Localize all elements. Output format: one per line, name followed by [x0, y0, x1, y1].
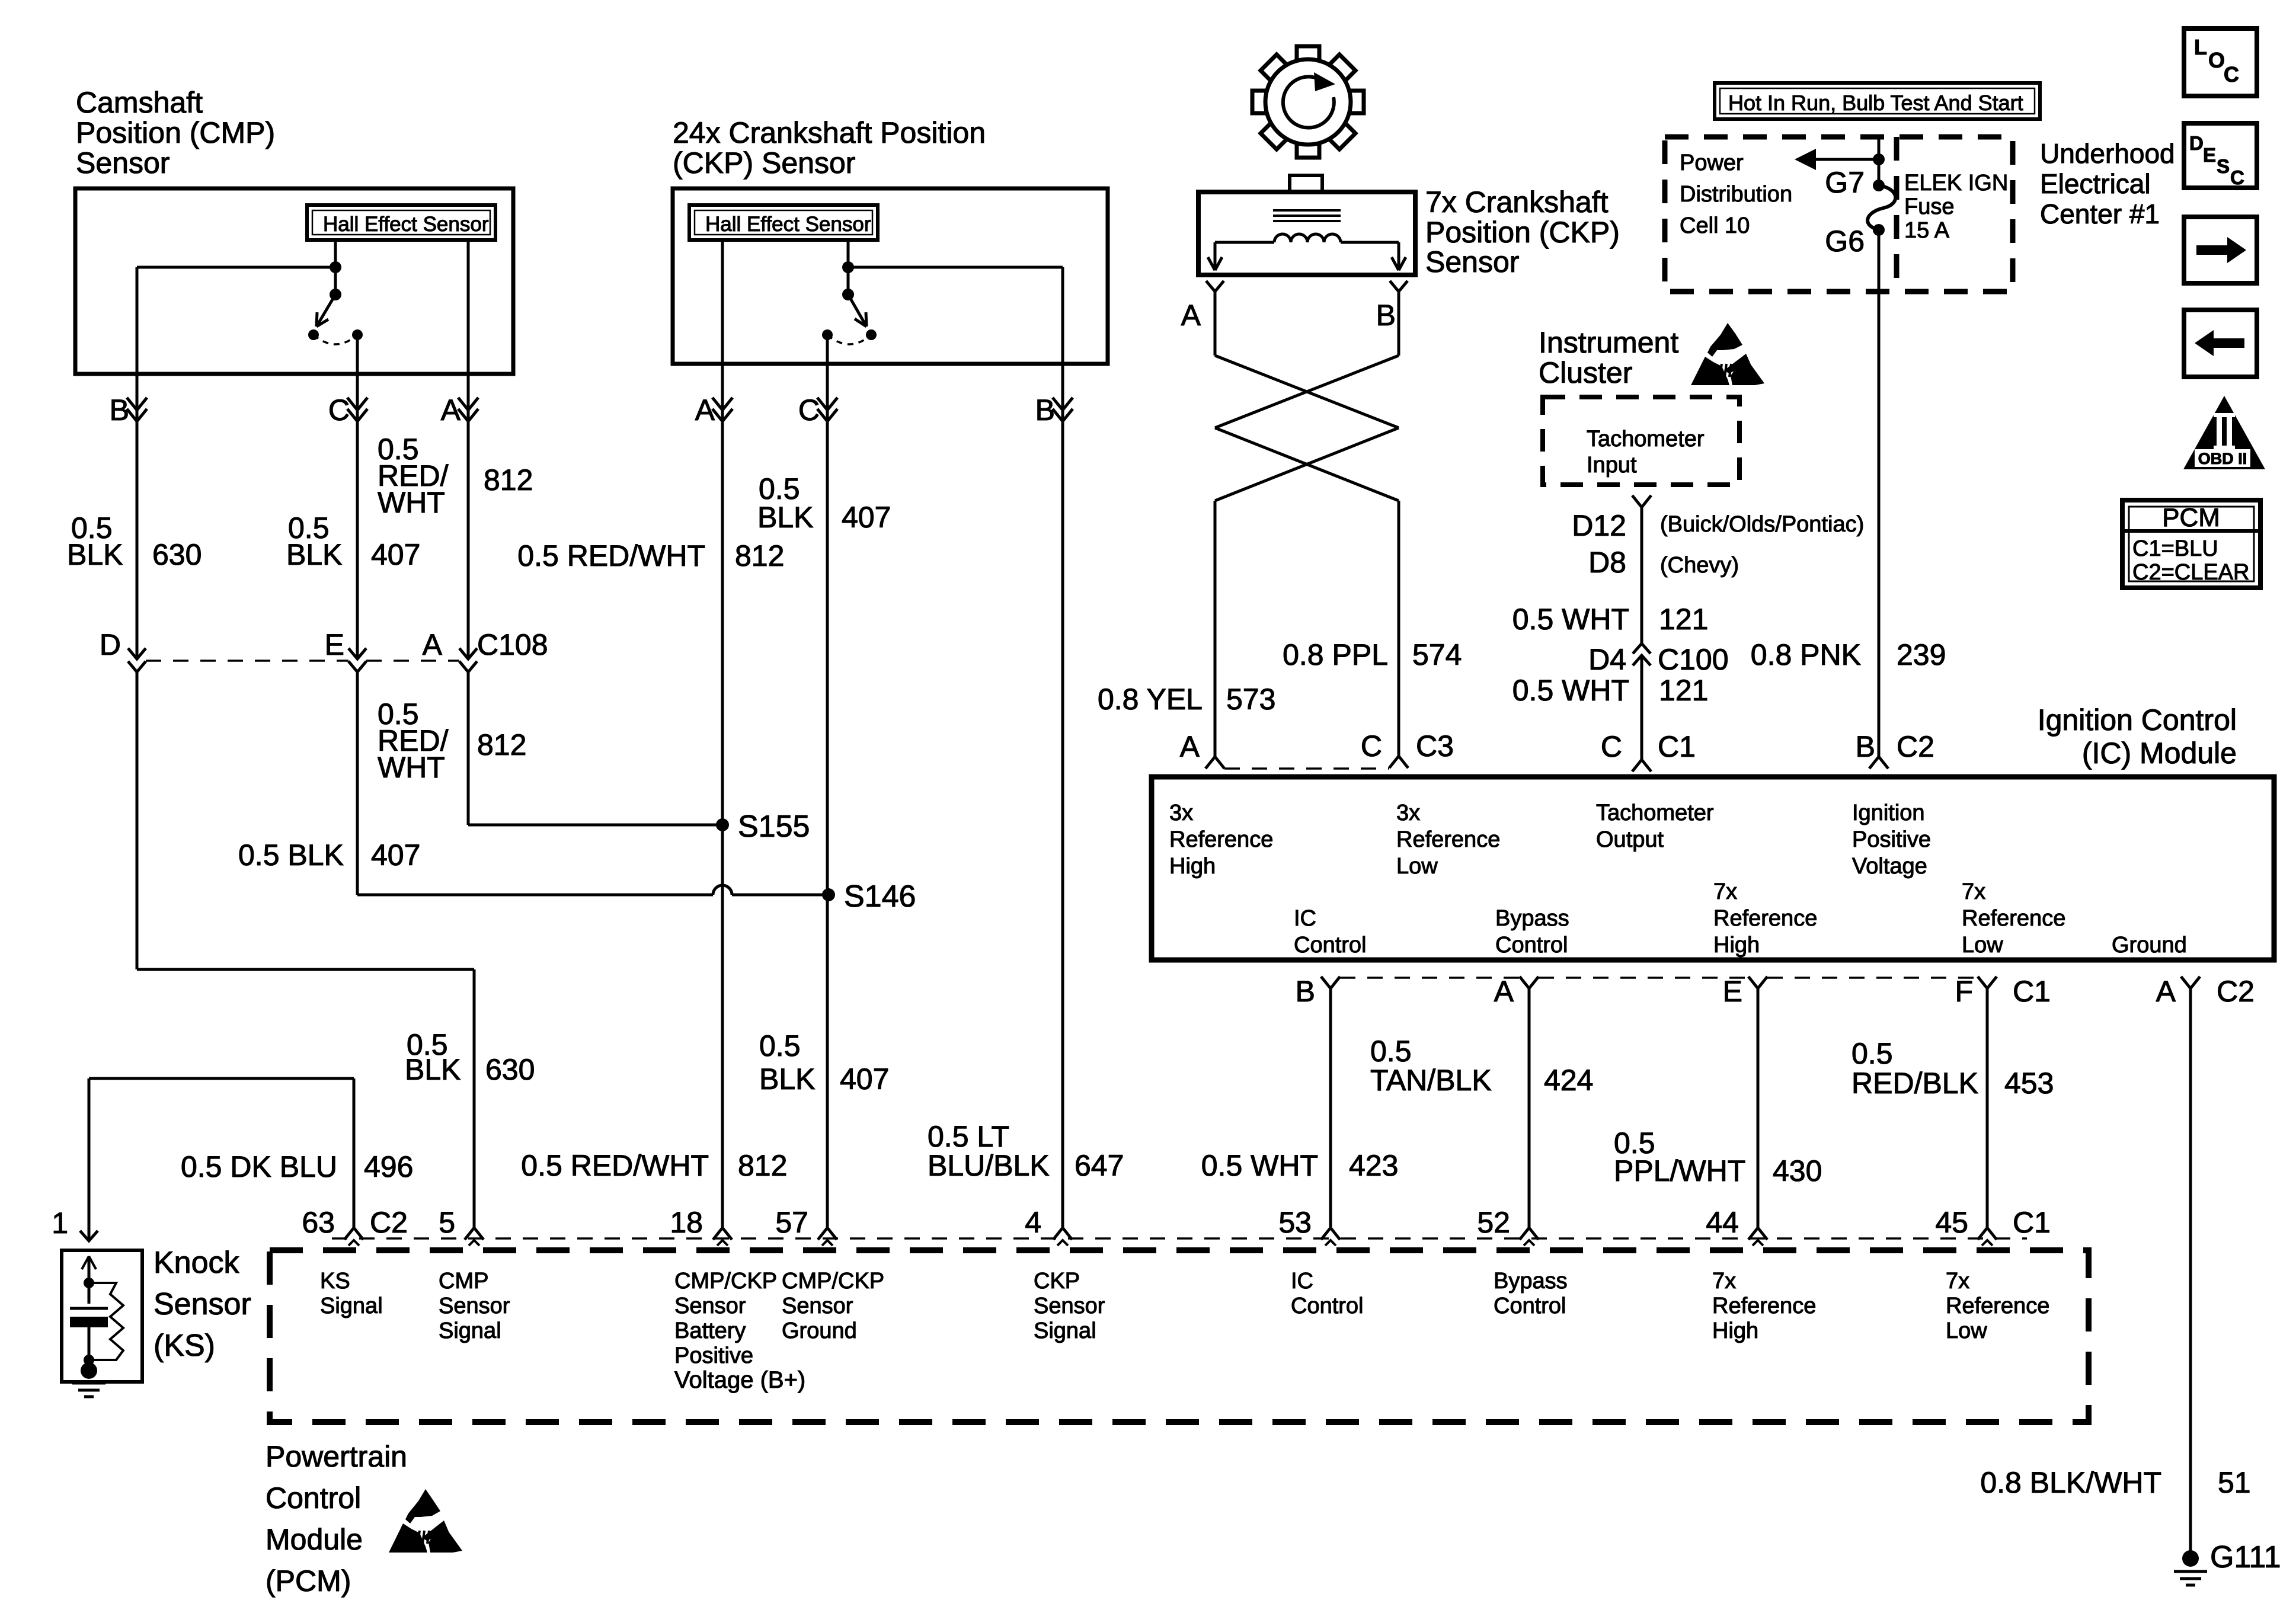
svg-text:BLK: BLK: [405, 1053, 461, 1086]
svg-text:Low: Low: [1962, 933, 2003, 958]
DESC reference box: [2184, 123, 2257, 188]
OBD II triangle symbol: [2183, 396, 2265, 469]
svg-text:0.5 BLK: 0.5 BLK: [238, 838, 344, 872]
svg-text:A: A: [423, 628, 443, 661]
7x sensor magnetic core lines: [1273, 209, 1341, 212]
svg-text:Signal: Signal: [320, 1294, 383, 1318]
CMP sensor box: [75, 188, 513, 374]
7x sensor pickup coil: [1274, 234, 1341, 242]
svg-text:C3: C3: [1416, 729, 1454, 763]
svg-text:C2: C2: [1897, 730, 1934, 763]
svg-text:CMP/CKP: CMP/CKP: [674, 1269, 777, 1294]
svg-text:Low: Low: [1396, 854, 1438, 879]
svg-text:Position (CKP): Position (CKP): [1425, 216, 1620, 249]
svg-text:430: 430: [1773, 1154, 1822, 1188]
svg-text:High: High: [1712, 1318, 1758, 1343]
svg-text:BLK: BLK: [757, 501, 814, 534]
svg-text:Control: Control: [1495, 933, 1568, 958]
svg-text:0.8 BLK/WHT: 0.8 BLK/WHT: [1980, 1466, 2161, 1499]
knock sensor internal wire: [88, 1256, 91, 1304]
wire - knock sensor to PCM pin 63: [88, 1078, 91, 1241]
svg-text:A: A: [1180, 730, 1200, 763]
svg-text:BLK: BLK: [67, 538, 123, 571]
svg-text:Ignition: Ignition: [1852, 801, 1925, 825]
svg-text:WHT: WHT: [378, 751, 445, 784]
Ignition Control Module box: [1152, 777, 2274, 960]
wire - 24x C wire (0.5 BLK 407) to S146 then PCM pin 57: [826, 364, 829, 1228]
svg-text:Powertrain: Powertrain: [266, 1440, 407, 1473]
svg-text:C108: C108: [477, 628, 548, 661]
7x CKP sensor box: [1198, 192, 1415, 275]
svg-text:A: A: [1494, 975, 1514, 1008]
ground at knock sensor: [81, 1362, 97, 1379]
svg-text:TAN/BLK: TAN/BLK: [1370, 1064, 1492, 1097]
svg-text:15 A: 15 A: [1904, 218, 1950, 243]
svg-text:G6: G6: [1825, 225, 1865, 258]
wire - E wire horizontal to S146 with hop over 812 wire: [357, 894, 713, 897]
svg-text:D12: D12: [1572, 509, 1626, 542]
svg-text:Power: Power: [1680, 151, 1744, 175]
svg-text:CMP/CKP: CMP/CKP: [782, 1269, 884, 1294]
svg-text:63: 63: [302, 1206, 335, 1239]
svg-text:Position (CMP): Position (CMP): [76, 116, 275, 149]
wire - CMP pin C wire (0.5 BLK 407) to S146: [356, 374, 359, 659]
svg-text:(Buick/Olds/Pontiac): (Buick/Olds/Pontiac): [1660, 512, 1864, 537]
svg-text:Positive: Positive: [674, 1343, 753, 1368]
svg-text:Tachometer: Tachometer: [1587, 427, 1705, 452]
Powertrain Control Module dashed box: [270, 1250, 2089, 1422]
svg-text:Control: Control: [266, 1481, 361, 1515]
svg-text:424: 424: [1544, 1064, 1593, 1097]
svg-text:0.8 PPL: 0.8 PPL: [1283, 638, 1388, 671]
svg-text:Signal: Signal: [1034, 1318, 1096, 1343]
splice S155: [716, 818, 729, 831]
24x CKP sensor box: [673, 188, 1108, 364]
wire - 24x hall left output to pin A: [721, 240, 724, 364]
svg-text:4: 4: [1025, 1206, 1041, 1239]
wire - 24x hall right output to switch: [847, 240, 850, 267]
svg-text:Distribution: Distribution: [1680, 182, 1792, 207]
svg-text:PCM: PCM: [2162, 503, 2220, 532]
svg-text:Reference: Reference: [1712, 1294, 1816, 1318]
svg-text:121: 121: [1659, 603, 1708, 636]
svg-text:Reference: Reference: [1962, 906, 2065, 931]
svg-text:Positive: Positive: [1852, 827, 1931, 852]
PCM connector color legend box: [2122, 500, 2260, 588]
svg-text:Low: Low: [1946, 1318, 1987, 1343]
svg-text:C2: C2: [2217, 975, 2255, 1008]
svg-text:Hot In Run, Bulb Test And Star: Hot In Run, Bulb Test And Start: [1728, 91, 2023, 115]
svg-text:Ground: Ground: [2112, 933, 2187, 958]
UEC internal dashed divider: [1894, 137, 1900, 292]
svg-text:Knock: Knock: [154, 1246, 240, 1280]
svg-text:Hall Effect Sensor: Hall Effect Sensor: [705, 213, 871, 236]
svg-text:Hall Effect Sensor: Hall Effect Sensor: [323, 213, 489, 236]
svg-text:C1: C1: [2013, 975, 2051, 1008]
wire - CMP pin B wire (0.5 BLK 630) down to PCM pin 5: [136, 267, 139, 659]
svg-text:CMP: CMP: [439, 1269, 488, 1294]
wire - CMP pin A wire (0.5 RED/WHT 812) to S155: [467, 240, 470, 374]
ESD symbol (PCM): [405, 1489, 440, 1523]
node - feed junction: [1873, 153, 1885, 165]
svg-text:Bypass: Bypass: [1495, 906, 1569, 931]
svg-text:Bypass: Bypass: [1494, 1269, 1568, 1294]
svg-text:C: C: [1601, 730, 1622, 763]
svg-text:WHT: WHT: [378, 486, 445, 519]
svg-text:51: 51: [2218, 1466, 2251, 1499]
wire - 24x internal horizontal to pin B leg: [848, 266, 1063, 269]
svg-text:0.5 DK BLU: 0.5 DK BLU: [181, 1150, 337, 1183]
7x sensor internal wires with arrows: [1215, 241, 1274, 244]
svg-text:7x: 7x: [1712, 1269, 1736, 1294]
svg-text:0.5 LT: 0.5 LT: [928, 1120, 1009, 1153]
svg-text:Output: Output: [1596, 827, 1664, 852]
svg-text:52: 52: [1477, 1206, 1510, 1239]
svg-text:Sensor: Sensor: [1034, 1294, 1105, 1318]
svg-text:5: 5: [439, 1206, 455, 1239]
svg-text:630: 630: [152, 538, 202, 571]
arrow - feed to power distribution: [1815, 158, 1879, 161]
wire - 24x pin C leg inside box: [826, 335, 829, 364]
svg-text:Underhood: Underhood: [2040, 138, 2175, 169]
svg-text:3x: 3x: [1396, 801, 1420, 825]
svg-text:0.8 PNK: 0.8 PNK: [1751, 638, 1861, 671]
connector C108 dashed line: [146, 660, 348, 662]
Underhood Electrical Center dashed box: [1665, 137, 2013, 292]
svg-text:ELEK IGN: ELEK IGN: [1904, 171, 2008, 196]
svg-text:C2=CLEAR: C2=CLEAR: [2132, 560, 2249, 585]
svg-text:C1: C1: [2013, 1206, 2051, 1239]
svg-text:C1=BLU: C1=BLU: [2132, 536, 2218, 561]
fuse ELEK IGN 15A: [1873, 180, 1885, 191]
forward arrow box: [2184, 217, 2257, 283]
svg-text:1: 1: [52, 1206, 68, 1240]
svg-text:7x: 7x: [1962, 879, 1985, 904]
svg-text:D8: D8: [1588, 546, 1626, 579]
svg-text:Sensor: Sensor: [782, 1294, 853, 1318]
rotation arrow inside gear: [1283, 76, 1334, 127]
svg-text:Cell 10: Cell 10: [1680, 213, 1750, 238]
wire - 0.8 PNK 239 from fuse to IC pin B C2: [1878, 230, 1881, 757]
switch - 24x hall effect switch: [842, 289, 854, 300]
svg-text:C100: C100: [1658, 643, 1729, 676]
svg-text:3x: 3x: [1169, 801, 1193, 825]
svg-text:F: F: [1955, 975, 1973, 1008]
svg-text:812: 812: [477, 728, 526, 761]
svg-text:G111: G111: [2210, 1540, 2281, 1574]
svg-text:Reference: Reference: [1713, 906, 1817, 931]
wire - CMP internal horizontal to pin B leg: [137, 266, 335, 269]
svg-text:E: E: [325, 628, 344, 661]
svg-text:(Chevy): (Chevy): [1660, 553, 1739, 578]
svg-text:574: 574: [1412, 638, 1462, 671]
svg-text:0.8 YEL: 0.8 YEL: [1098, 683, 1203, 716]
svg-text:Reference: Reference: [1169, 827, 1273, 852]
svg-text:0.5 RED/WHT: 0.5 RED/WHT: [517, 539, 705, 572]
svg-text:KS: KS: [320, 1269, 350, 1294]
svg-text:7x: 7x: [1946, 1269, 1969, 1294]
svg-text:B: B: [1856, 730, 1875, 763]
capacitor inside knock sensor: [70, 1307, 108, 1310]
svg-text:OBD II: OBD II: [2198, 450, 2247, 468]
wire - IC control 0.5 WHT 423 to PCM pin 53: [1329, 988, 1332, 1228]
connector pin B of 7x CKP: [1390, 281, 1408, 292]
svg-text:0.5: 0.5: [1370, 1035, 1412, 1068]
svg-text:High: High: [1169, 854, 1216, 879]
svg-text:812: 812: [735, 539, 784, 572]
svg-text:0.5 WHT: 0.5 WHT: [1201, 1149, 1318, 1182]
svg-text:239: 239: [1897, 638, 1946, 671]
svg-text:0.5 WHT: 0.5 WHT: [1512, 674, 1629, 707]
svg-text:45: 45: [1935, 1206, 1968, 1239]
connector C1 dashed line at IC bottom: [1340, 977, 1520, 979]
svg-text:18: 18: [670, 1206, 703, 1239]
connector pin A of 7x CKP: [1206, 281, 1224, 292]
svg-text:Ground: Ground: [782, 1318, 857, 1343]
svg-text:A: A: [1181, 299, 1201, 332]
switch - CMP hall effect switch: [330, 289, 341, 300]
svg-text:C1: C1: [1658, 730, 1696, 763]
svg-text:D: D: [2189, 132, 2204, 154]
svg-text:423: 423: [1349, 1149, 1398, 1182]
svg-text:407: 407: [371, 838, 420, 872]
PCM connector dashed line: [332, 1237, 2027, 1240]
svg-text:812: 812: [738, 1149, 787, 1182]
svg-text:CKP: CKP: [1034, 1269, 1080, 1294]
svg-text:7x Crankshaft: 7x Crankshaft: [1425, 185, 1609, 219]
svg-text:Sensor: Sensor: [154, 1287, 251, 1321]
svg-text:(PCM): (PCM): [266, 1564, 351, 1598]
splice S146: [822, 888, 835, 901]
wire - 7x reference high 0.5 PPL/WHT 430 to PCM pin 44: [1757, 988, 1760, 1228]
wire - 7x reference low 0.5 RED/BLK 453 to PCM pin 45: [1986, 988, 1989, 1228]
svg-text:S155: S155: [738, 809, 810, 844]
svg-text:BLU/BLK: BLU/BLK: [928, 1149, 1050, 1182]
svg-text:Control: Control: [1494, 1294, 1566, 1318]
svg-text:121: 121: [1659, 674, 1708, 707]
svg-text:O: O: [2208, 48, 2225, 72]
svg-text:B: B: [1296, 975, 1315, 1008]
svg-text:496: 496: [364, 1150, 413, 1183]
svg-text:S: S: [2217, 155, 2230, 177]
resistor inside knock sensor: [89, 1283, 123, 1360]
svg-text:E: E: [1723, 975, 1742, 1008]
svg-text:Battery: Battery: [674, 1318, 746, 1343]
wire - CMP pin C leg inside box: [356, 335, 359, 374]
svg-text:7x: 7x: [1713, 879, 1737, 904]
svg-text:IC: IC: [1291, 1269, 1313, 1294]
svg-text:B: B: [1376, 299, 1396, 332]
node - knock top junction: [84, 1278, 94, 1288]
wire - ignition feed from fuse: [1878, 137, 1881, 185]
svg-text:G7: G7: [1825, 166, 1865, 199]
svg-text:BLK: BLK: [759, 1062, 816, 1096]
node - CMP switch common junction: [330, 261, 341, 273]
svg-text:BLK: BLK: [286, 538, 343, 571]
svg-text:C: C: [2224, 62, 2239, 87]
svg-text:Sensor: Sensor: [439, 1294, 510, 1318]
Hall Effect Sensor box (CMP): [307, 205, 495, 240]
svg-text:Voltage (B+): Voltage (B+): [674, 1367, 805, 1393]
Tachometer Input dashed box: [1543, 397, 1739, 485]
svg-text:D4: D4: [1588, 643, 1626, 676]
svg-text:Control: Control: [1294, 933, 1367, 958]
svg-text:Sensor: Sensor: [674, 1294, 746, 1318]
svg-text:0.5 WHT: 0.5 WHT: [1512, 603, 1629, 636]
wire - 7x B wire down to IC pin C (C3): [1398, 501, 1400, 756]
svg-text:Tachometer: Tachometer: [1596, 801, 1714, 825]
svg-text:IC: IC: [1294, 906, 1316, 931]
connector - tach input fork D12: [1632, 495, 1651, 507]
svg-text:53: 53: [1278, 1206, 1312, 1239]
svg-text:(KS): (KS): [154, 1329, 215, 1363]
svg-text:Camshaft: Camshaft: [76, 86, 203, 119]
svg-text:RED/BLK: RED/BLK: [1851, 1067, 1978, 1100]
ESD symbol (instrument cluster): [1707, 323, 1742, 357]
svg-text:L: L: [2194, 35, 2207, 59]
7x sensor mounting tab: [1290, 175, 1322, 192]
svg-text:407: 407: [840, 1062, 889, 1096]
svg-text:Control: Control: [1291, 1294, 1364, 1318]
node - 24x switch junction: [842, 261, 854, 273]
svg-text:(IC) Module: (IC) Module: [2082, 737, 2237, 770]
svg-text:C2: C2: [370, 1206, 408, 1239]
svg-text:E: E: [2203, 144, 2216, 166]
back arrow box: [2184, 310, 2257, 377]
wire - CMP hall output to switch junction: [334, 240, 337, 267]
LOC reference box: [2184, 28, 2257, 96]
svg-text:D: D: [100, 628, 121, 661]
svg-text:C: C: [2230, 167, 2244, 188]
wire - 24x A wire (0.5 RED/WHT 812) to S155 then PCM pin 18: [721, 364, 724, 1228]
svg-text:Electrical: Electrical: [2040, 168, 2151, 199]
svg-text:57: 57: [775, 1206, 808, 1239]
svg-text:Ignition Control: Ignition Control: [2038, 703, 2237, 737]
svg-text:S146: S146: [844, 879, 916, 914]
svg-text:Signal: Signal: [439, 1318, 501, 1343]
svg-text:Cluster: Cluster: [1539, 356, 1632, 389]
svg-text:Center #1: Center #1: [2040, 199, 2160, 229]
svg-text:0.5: 0.5: [759, 1029, 801, 1062]
Knock Sensor box: [62, 1250, 142, 1382]
svg-text:0.5 RED/WHT: 0.5 RED/WHT: [521, 1149, 709, 1182]
connector knock sensor pin 1: [80, 1231, 98, 1241]
svg-text:573: 573: [1226, 683, 1275, 716]
node - knock bottom junction: [84, 1355, 94, 1365]
ground G111: [2182, 1550, 2199, 1567]
svg-text:0.5: 0.5: [1851, 1037, 1893, 1070]
svg-text:Fuse: Fuse: [1904, 194, 1954, 219]
Hall Effect Sensor box (24x): [689, 205, 878, 240]
connector C100 (D4): [1633, 644, 1651, 665]
svg-text:PPL/WHT: PPL/WHT: [1614, 1154, 1745, 1188]
svg-text:A: A: [2156, 975, 2176, 1008]
svg-text:Module: Module: [266, 1523, 363, 1556]
svg-text:Sensor: Sensor: [76, 146, 170, 180]
svg-text:C: C: [1361, 729, 1382, 763]
svg-text:812: 812: [484, 463, 533, 497]
svg-text:Input: Input: [1587, 453, 1637, 478]
wire - IC ground 0.8 BLK/WHT 51 to G111: [2189, 988, 2192, 1558]
svg-text:24x Crankshaft Position: 24x Crankshaft Position: [673, 116, 986, 149]
svg-text:453: 453: [2004, 1067, 2054, 1100]
wire - tachometer wire (0.5 WHT 121) from cluster to IC pin C C1: [1641, 507, 1643, 644]
wire - 24x B wire (0.5 LT BLU/BLK 647) to PCM pin 4: [1061, 364, 1064, 1228]
svg-text:High: High: [1713, 933, 1760, 958]
gear icon (reluctor wheel) of 7x CKP sensor: [1346, 91, 1364, 113]
svg-text:Voltage: Voltage: [1852, 854, 1927, 879]
svg-text:44: 44: [1706, 1206, 1739, 1239]
connector C3 dashed line: [1224, 767, 1389, 770]
svg-text:Sensor: Sensor: [1425, 245, 1519, 279]
svg-text:407: 407: [371, 538, 420, 571]
wire - 7x A wire with twisted pair crossover to IC pin A: [1214, 292, 1217, 356]
svg-text:630: 630: [485, 1053, 535, 1086]
Hot In Run Bulb Test And Start box: [1715, 83, 2040, 119]
svg-text:407: 407: [842, 501, 891, 534]
wire - bypass control 0.5 TAN/BLK 424 to PCM pin 52: [1528, 988, 1531, 1228]
svg-text:Reference: Reference: [1396, 827, 1500, 852]
svg-text:Instrument: Instrument: [1539, 326, 1678, 359]
svg-text:(CKP) Sensor: (CKP) Sensor: [673, 146, 855, 180]
svg-text:Reference: Reference: [1946, 1294, 2049, 1318]
svg-text:647: 647: [1075, 1149, 1124, 1182]
